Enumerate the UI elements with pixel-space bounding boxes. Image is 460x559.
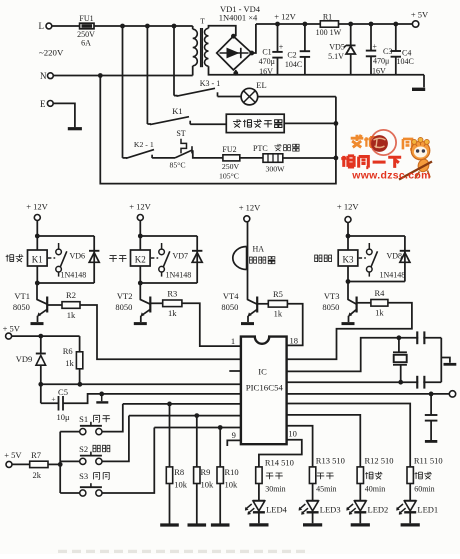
svg-text:1: 1	[231, 336, 235, 346]
svg-text:16V: 16V	[372, 66, 386, 75]
svg-text:470μ: 470μ	[259, 57, 275, 66]
svg-text:+: +	[51, 394, 55, 403]
svg-text:K2 - 1: K2 - 1	[134, 140, 154, 149]
svg-text:8050: 8050	[322, 302, 339, 312]
svg-text:104C: 104C	[397, 57, 414, 66]
svg-text:10μ: 10μ	[56, 412, 70, 422]
svg-text:+ 5V: + 5V	[4, 450, 22, 460]
svg-text:+: +	[372, 42, 377, 51]
svg-text:HA: HA	[253, 244, 265, 253]
svg-text:60min: 60min	[414, 484, 434, 493]
svg-text:FU2: FU2	[222, 145, 236, 154]
svg-text:1k: 1k	[375, 308, 384, 318]
svg-text:105°C: 105°C	[219, 172, 239, 181]
svg-text:S3: S3	[79, 471, 88, 481]
svg-text:104C: 104C	[285, 60, 302, 69]
svg-text:K3: K3	[343, 254, 354, 264]
svg-text:R11 510: R11 510	[414, 455, 443, 465]
svg-text:10k: 10k	[201, 479, 215, 489]
svg-text:VT1: VT1	[14, 291, 30, 301]
svg-text:1k: 1k	[168, 308, 177, 318]
svg-text:1k: 1k	[274, 309, 283, 319]
svg-text:S1: S1	[79, 414, 88, 424]
svg-text:R4: R4	[374, 288, 385, 298]
svg-text:S2: S2	[79, 444, 88, 454]
svg-text:PTC: PTC	[253, 144, 268, 153]
svg-text:K3 - 1: K3 - 1	[200, 79, 220, 88]
svg-text:R8: R8	[174, 467, 184, 477]
svg-text:VD6: VD6	[70, 251, 86, 260]
svg-text:R12 510: R12 510	[365, 455, 394, 465]
svg-text:10k: 10k	[174, 479, 188, 489]
svg-text:+ 5V: + 5V	[411, 10, 429, 20]
svg-text:PIC16C54: PIC16C54	[246, 382, 284, 392]
svg-text:+ 12V: + 12V	[274, 12, 296, 22]
svg-text:LED2: LED2	[368, 505, 389, 515]
svg-text:VT3: VT3	[324, 291, 340, 301]
svg-text:www.dzsc.com: www.dzsc.com	[351, 170, 430, 182]
svg-text:R9: R9	[201, 467, 211, 477]
svg-text:C5: C5	[58, 387, 68, 397]
svg-text:EL: EL	[256, 80, 266, 90]
svg-text:30min: 30min	[265, 484, 285, 493]
svg-text:VT4: VT4	[223, 291, 239, 301]
svg-text:VD7: VD7	[173, 251, 189, 260]
svg-text:6A: 6A	[81, 38, 91, 47]
svg-text:C4: C4	[402, 48, 411, 57]
svg-text:1N4001 ×4: 1N4001 ×4	[219, 13, 258, 23]
svg-text:8050: 8050	[115, 302, 132, 312]
svg-text:1N4148: 1N4148	[61, 271, 87, 280]
svg-text:VT2: VT2	[117, 291, 133, 301]
svg-text:2k: 2k	[33, 470, 42, 480]
svg-text:9: 9	[232, 430, 236, 440]
svg-text:+: +	[279, 42, 284, 51]
svg-text:470μ: 470μ	[373, 56, 389, 65]
svg-text:R5: R5	[273, 289, 283, 299]
svg-text:ST: ST	[176, 129, 185, 138]
svg-text:K1: K1	[32, 254, 43, 264]
svg-text:LED1: LED1	[417, 505, 438, 515]
svg-text:+ 12V: + 12V	[129, 201, 151, 211]
svg-text:10: 10	[288, 428, 297, 438]
svg-text:~220V: ~220V	[39, 48, 64, 58]
svg-text:40min: 40min	[365, 484, 385, 493]
svg-text:R10: R10	[225, 467, 239, 477]
svg-text:E: E	[40, 99, 46, 109]
svg-text:R14 510: R14 510	[265, 458, 294, 468]
svg-text:250V: 250V	[222, 162, 240, 171]
svg-text:1k: 1k	[65, 358, 74, 368]
svg-text:R2: R2	[66, 290, 76, 300]
svg-text:R6: R6	[63, 346, 73, 356]
svg-text:VD5: VD5	[329, 42, 345, 51]
svg-text:8050: 8050	[221, 302, 238, 312]
svg-text:85°C: 85°C	[169, 161, 185, 170]
svg-text:10k: 10k	[225, 479, 239, 489]
svg-text:45min: 45min	[316, 484, 336, 493]
svg-text:1k: 1k	[67, 310, 76, 320]
svg-text:K1: K1	[172, 106, 182, 116]
svg-text:R13 510: R13 510	[316, 455, 345, 465]
svg-text:L: L	[39, 21, 45, 31]
svg-text:R3: R3	[167, 289, 177, 299]
svg-text:LED4: LED4	[266, 505, 288, 515]
svg-text:K2: K2	[135, 254, 146, 264]
svg-text:5.1V: 5.1V	[328, 52, 344, 61]
svg-text:IC: IC	[258, 366, 267, 376]
svg-text:VD8: VD8	[387, 251, 403, 260]
svg-text:1N4148: 1N4148	[166, 271, 192, 280]
svg-text:16V: 16V	[259, 67, 273, 76]
svg-text:C1: C1	[262, 47, 271, 56]
svg-text:LED3: LED3	[320, 505, 341, 515]
svg-text:8050: 8050	[13, 302, 30, 312]
svg-text:100 1W: 100 1W	[316, 28, 342, 37]
svg-text:+ 12V: + 12V	[26, 201, 48, 211]
svg-text:VD9: VD9	[16, 354, 33, 364]
svg-text:R7: R7	[31, 450, 41, 460]
svg-text:FU1: FU1	[79, 14, 93, 23]
svg-text:18: 18	[290, 335, 299, 345]
svg-text:R1: R1	[323, 12, 332, 21]
svg-text:1N4148: 1N4148	[380, 271, 406, 280]
svg-text:T: T	[200, 16, 205, 25]
svg-text:300W: 300W	[265, 164, 285, 173]
svg-text:+ 12V: + 12V	[337, 201, 359, 211]
svg-text:+ 12V: + 12V	[239, 202, 261, 212]
svg-text:C2: C2	[287, 51, 296, 60]
svg-text:+ 5V: + 5V	[3, 323, 21, 333]
svg-text:N: N	[40, 71, 47, 81]
